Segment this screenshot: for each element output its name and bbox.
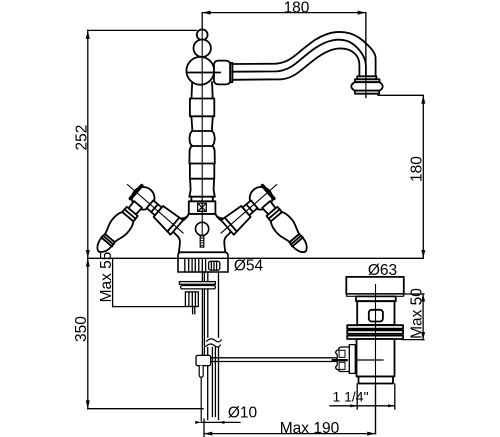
lever collar right (267, 207, 283, 222)
cone ring right (225, 218, 237, 232)
X square (198, 203, 207, 211)
extension line 252 top (88, 29, 197, 31)
pivot nut hatch upper (339, 350, 345, 357)
collar end band (230, 63, 232, 82)
small fitting in base (209, 261, 220, 270)
arrow 1 1/4 left (350, 404, 357, 407)
extension line spout center (365, 13, 367, 98)
cone ring left (167, 218, 179, 232)
arrow Max50 bottom (421, 332, 425, 340)
handle ball right (250, 187, 273, 210)
svg-text:Ø54: Ø54 (234, 258, 264, 275)
fitting inner lines (211, 261, 216, 270)
column ring 1 (190, 98, 214, 100)
head ball (186, 57, 214, 85)
countertop line (88, 257, 424, 259)
column ring 5 (189, 163, 214, 165)
pivot nut knurled (336, 347, 350, 372)
popup rod (202, 272, 204, 355)
neck ring right (246, 204, 253, 212)
pipe break symbol (206, 339, 221, 347)
collar ring right (269, 209, 280, 219)
grip end rings right (290, 234, 304, 247)
body fillet arcs (182, 214, 223, 218)
svg-text:252: 252 (73, 125, 90, 151)
handle axis line left (127, 185, 183, 234)
Max50 top extension (404, 293, 424, 295)
neck (356, 296, 396, 301)
extension line faucet center top (201, 13, 203, 30)
arrow 350 top (86, 258, 90, 266)
ext tailpiece right (394, 384, 396, 409)
nut hatch (189, 292, 196, 307)
svg-text:1 1/4": 1 1/4" (332, 388, 368, 404)
washer plate 1 (179, 282, 215, 285)
pivot rod into drain (352, 359, 383, 361)
arrow Max190 right (367, 432, 375, 436)
350 bottom extension line (88, 408, 203, 410)
base flange (over counter line) (178, 252, 228, 272)
pivot nut plate (349, 345, 355, 374)
valve neck right (243, 200, 258, 215)
drain center extension down (375, 384, 377, 434)
Max55 bracket bottom extension (113, 306, 186, 308)
column outline (189, 82, 214, 201)
ext tailpiece left (356, 384, 358, 409)
svg-text:180: 180 (284, 0, 310, 17)
Max50 bottom extension (402, 339, 424, 341)
body upper (357, 301, 394, 325)
end ring line left (103, 236, 113, 245)
flange bottom lip (347, 294, 404, 296)
ring band 3 (347, 336, 403, 339)
link bar (211, 358, 336, 362)
fillet left of box (182, 214, 189, 218)
column ring 3 (192, 130, 212, 132)
countertop line over flange (178, 257, 228, 259)
mounting nut (185, 292, 198, 307)
dim 1 1/4 line (330, 405, 395, 407)
bell band2 (355, 79, 380, 82)
fillet right of box (215, 214, 222, 218)
valve neck left (147, 200, 162, 215)
overflow hole (369, 310, 383, 322)
grip end dome left (97, 238, 111, 252)
arrow right180 top (421, 95, 425, 103)
svg-text:Max 55: Max 55 (98, 252, 115, 303)
washer plate 2 (181, 286, 216, 289)
column ring 2 (190, 115, 214, 117)
dim 010 line (201, 421, 240, 423)
arrow left of top 180 (202, 11, 210, 15)
bell bulge (351, 82, 382, 90)
collar ring left (124, 209, 135, 219)
valve cone right (221, 206, 251, 235)
popup stem hatch (200, 238, 204, 245)
end ring line right (291, 236, 301, 245)
nut stud (193, 307, 195, 314)
spout top curve (232, 32, 376, 76)
lever grip right (271, 212, 299, 242)
Max50 vertical (422, 294, 424, 340)
lever index disc left (130, 186, 141, 199)
rod through nut (333, 359, 347, 361)
dim right 180 vertical (422, 95, 424, 258)
Max190 line (204, 433, 376, 435)
arrow 010 left (195, 421, 201, 424)
neck ring left (151, 204, 158, 212)
finial small ball (197, 29, 208, 40)
arrow right of top 180 (358, 11, 366, 15)
supply pipes upper (208, 272, 219, 337)
svg-text:180: 180 (409, 156, 426, 182)
column ring 7 (189, 196, 214, 198)
body lower (357, 339, 395, 377)
spout mid curve (232, 40, 366, 77)
body outline (174, 214, 231, 252)
column ring 6 (190, 178, 214, 180)
X diagonals (198, 203, 207, 211)
tailpiece (359, 377, 394, 384)
dim right 180 top extension (378, 94, 423, 96)
svg-text:Max 50: Max 50 (409, 288, 426, 339)
grip end dome right (293, 238, 307, 252)
spout collar (214, 61, 230, 85)
svg-text:Max 190: Max 190 (280, 420, 340, 437)
bell collar band (357, 76, 376, 79)
arrow 1 1/4 right (388, 404, 395, 407)
spout outlet centerline (365, 13, 367, 98)
drain flange (346, 277, 404, 294)
lever index disc right (263, 186, 274, 199)
ring band 2 (347, 330, 403, 333)
rod tail line (200, 377, 202, 421)
column ring 4 (192, 145, 212, 147)
grip end rings left (101, 234, 115, 247)
dim top 180 line (202, 12, 366, 14)
Max190 left extension (203, 419, 205, 437)
shank lines inside base (185, 259, 206, 272)
ring band 1 (347, 325, 403, 329)
handle ball left (132, 187, 155, 210)
head equator line (188, 72, 221, 74)
svg-text:350: 350 (73, 316, 90, 342)
svg-text:Ø10: Ø10 (228, 405, 258, 422)
lever neck left (129, 201, 142, 214)
arrow 252 top (86, 30, 90, 38)
arrow 350 bottom (86, 400, 90, 408)
arrow 252 bottom (86, 250, 90, 258)
bell bottom band (355, 91, 379, 94)
valve cone left (154, 206, 184, 235)
rod clamp (196, 355, 211, 365)
popup knob (196, 222, 209, 235)
Max55 bracket vertical (112, 258, 114, 306)
arrow Max190 left (204, 432, 212, 436)
arrow right180 bottom (421, 250, 425, 258)
popup stem (200, 236, 204, 247)
faucet centerline (201, 29, 203, 235)
lever neck right (262, 201, 275, 214)
handle axis line right (221, 185, 277, 234)
drain centerline (375, 284, 377, 434)
dim 350 vertical line (87, 258, 89, 408)
arrow Max50 top (421, 294, 425, 302)
dim 252 vertical line (87, 30, 89, 258)
spout bottom curve (232, 49, 359, 80)
diverter box (189, 201, 216, 214)
finial mid ball (194, 40, 211, 57)
arrow 010 right (219, 421, 225, 424)
rod tip below clamp (199, 366, 203, 378)
lever collar left (122, 207, 138, 222)
lever grip left (105, 212, 133, 242)
pivot nut hatch lower (339, 362, 345, 369)
supply pipes lower (208, 348, 219, 420)
